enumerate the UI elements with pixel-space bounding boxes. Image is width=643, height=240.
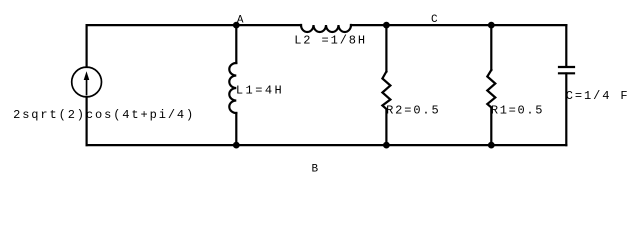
wire R2 branch top <box>385 25 387 71</box>
junction node A dot <box>233 22 240 29</box>
wire left branch bottom <box>85 99 87 146</box>
wire capacitor branch top <box>565 25 567 66</box>
junction dot bottom R2 <box>383 142 390 149</box>
wire bottom <box>87 144 567 146</box>
wire L1 branch bottom <box>235 113 237 145</box>
svg-text:2sqrt(2)cos(4t+pi/4): 2sqrt(2)cos(4t+pi/4) <box>13 108 195 122</box>
junction dot top R1 <box>488 22 495 29</box>
svg-text:C: C <box>431 14 438 26</box>
svg-text:R2=0.5: R2=0.5 <box>386 103 441 117</box>
svg-text:A: A <box>237 14 244 26</box>
junction dot bottom R1 <box>488 142 495 149</box>
svg-text:B: B <box>312 164 319 176</box>
svg-text:R1=0.5: R1=0.5 <box>491 103 544 117</box>
resistor R2 zigzag <box>382 72 390 110</box>
svg-text:L2 =1/8H: L2 =1/8H <box>294 34 367 48</box>
current source I1 circle <box>72 67 102 97</box>
wire top right segment <box>351 24 566 26</box>
resistor R1 zigzag <box>487 70 495 108</box>
inductor L2 coil <box>301 25 351 32</box>
svg-text:L1=4H: L1=4H <box>236 84 284 98</box>
svg-text:C=1/4 F: C=1/4 F <box>566 89 630 103</box>
wire L1 branch top <box>235 25 237 63</box>
current source arrow <box>84 71 90 95</box>
wire top left segment <box>87 24 301 26</box>
wire R1 branch bottom <box>490 108 492 146</box>
junction dot top R2 <box>383 22 390 29</box>
capacitor C bottom plate <box>559 72 574 74</box>
wire capacitor branch bottom <box>565 74 567 146</box>
wire R2 branch bottom <box>385 109 387 145</box>
capacitor C top plate <box>559 66 574 68</box>
wire R1 branch top <box>490 25 492 70</box>
junction dot bottom L1 <box>233 142 240 149</box>
inductor L1 coil <box>229 63 236 113</box>
wire left branch top <box>85 25 87 67</box>
